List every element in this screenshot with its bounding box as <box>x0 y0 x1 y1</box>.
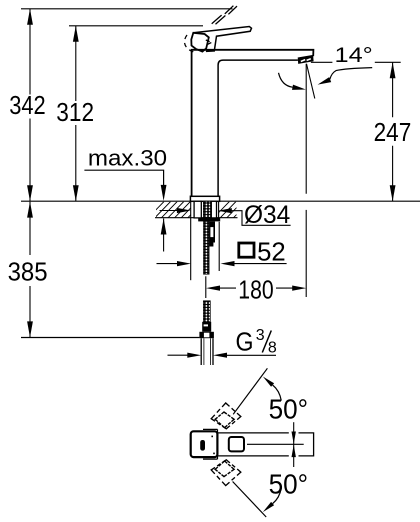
top view dots <box>211 436 213 438</box>
diameter 34 left arrow <box>160 210 183 212</box>
lower 50 degree arc arrow <box>263 502 274 512</box>
dimension 247 bottom arrow <box>390 185 396 201</box>
mounting washer <box>198 218 220 221</box>
max.30 down arrow <box>161 185 167 201</box>
handle lever <box>193 27 251 52</box>
rotation vertical dimension line <box>293 422 295 467</box>
dimension 342 top arrow <box>27 9 33 25</box>
upper dashed square outer <box>211 403 241 429</box>
shank threaded center <box>203 201 210 218</box>
wire second reference line 312 level <box>69 25 203 27</box>
14 degree left arc <box>279 73 293 87</box>
dimension 385 top arrow <box>27 202 33 218</box>
water stream 14 degree line <box>307 64 315 99</box>
shank left part <box>194 201 201 218</box>
countertop top surface line <box>21 200 420 202</box>
dimension 385 bottom arrow <box>27 321 33 337</box>
G 3/8 right arrow and leader <box>213 353 227 358</box>
svg-text:8: 8 <box>268 339 277 356</box>
svg-text:52: 52 <box>257 236 286 266</box>
dimension 247 top arrow <box>390 62 396 78</box>
square 52 right arrow and underline <box>221 261 235 266</box>
hose nut <box>199 332 214 338</box>
handle knob <box>191 33 209 52</box>
dimension 312 line <box>75 26 77 201</box>
upper 50 degree diagonal <box>233 368 267 414</box>
svg-text:max.30: max.30 <box>88 145 167 170</box>
top view handle square <box>229 437 244 451</box>
dimension 180 extension line <box>205 276 207 298</box>
svg-text:180: 180 <box>238 274 273 304</box>
handle ghost dashed outline <box>184 35 196 52</box>
shelf bottom reference line <box>21 337 199 339</box>
shank right edge line <box>218 201 220 217</box>
countertop hatching left band <box>148 202 204 219</box>
dimension 385 line <box>29 202 31 338</box>
top view body block <box>191 431 218 457</box>
spout centerline upper <box>305 64 307 194</box>
square 52 left arrow <box>157 263 182 265</box>
wire top reference line 342 level <box>21 8 233 10</box>
top view spout rectangle <box>204 433 314 456</box>
countertop bottom line <box>155 217 238 219</box>
14 degree leader line <box>311 61 401 63</box>
dimension 247 line <box>392 62 394 201</box>
dimension 180 left arrow <box>206 286 220 291</box>
svg-text:50°: 50° <box>269 393 309 424</box>
diameter 34 right arrow and leader <box>218 208 232 213</box>
svg-text:385: 385 <box>8 256 48 286</box>
aerator at spout tip <box>298 55 314 64</box>
lower 50 degree diagonal <box>233 482 267 518</box>
upper 50 degree arc arrow <box>263 377 274 387</box>
svg-text:342: 342 <box>9 90 46 120</box>
countertop hatching right band <box>213 202 249 219</box>
break marks lower pair <box>212 15 226 24</box>
handle ghost right dash <box>206 40 212 45</box>
max.30 leader underline <box>84 170 163 189</box>
hose threaded nipple <box>203 301 210 322</box>
break marks upper pair <box>225 6 237 15</box>
faucet body outer profile <box>192 50 314 197</box>
threaded rod <box>204 221 210 274</box>
mounting bracket <box>209 222 215 243</box>
square 52 symbol <box>239 243 254 257</box>
lower dashed square inner <box>215 461 234 477</box>
hose tube <box>201 338 213 365</box>
svg-text:247: 247 <box>374 117 412 147</box>
14 degree right curved leader <box>330 68 372 80</box>
svg-text:312: 312 <box>56 97 94 127</box>
base plate <box>190 196 219 201</box>
svg-text:3: 3 <box>256 327 265 344</box>
dimension 180 right arrow <box>292 286 306 291</box>
svg-text:Ø34: Ø34 <box>244 201 290 229</box>
hose transition block <box>202 322 211 332</box>
G 3/8 left arrow <box>168 354 192 356</box>
dimension 342 line <box>29 9 31 201</box>
top view slot <box>200 440 205 451</box>
shank right part <box>211 201 216 218</box>
dimension 342 bottom arrow <box>27 185 33 201</box>
svg-text:14°: 14° <box>335 44 373 67</box>
max.30 up arrow with tail <box>163 219 165 252</box>
dimension 312 top arrow <box>73 26 79 42</box>
lower dashed square outer <box>211 460 241 486</box>
svg-text:G: G <box>236 326 254 356</box>
dimension 312 bottom arrow <box>73 185 79 201</box>
svg-text:50°: 50° <box>269 468 309 499</box>
upper dashed square inner <box>215 412 234 428</box>
extension line left body edge <box>190 202 192 281</box>
faucet spout underside and right body edge <box>218 60 298 196</box>
top view back plate <box>203 429 218 459</box>
extension line right body edge <box>218 222 220 271</box>
spout centerline lower <box>305 210 307 297</box>
top view centerline <box>247 443 304 445</box>
